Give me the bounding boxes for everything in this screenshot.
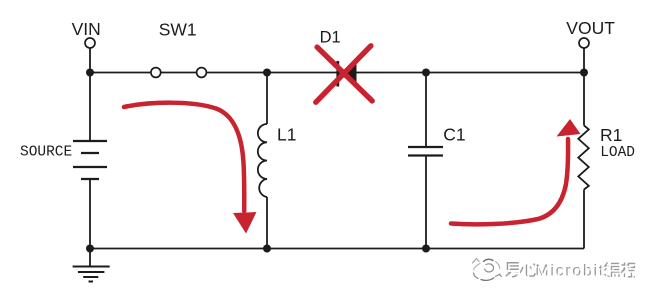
wire R1 branch upper	[583, 73, 585, 126]
node ground junction	[86, 245, 94, 253]
wire C1 branch lower	[425, 156, 427, 249]
annotation red arrow left (inrush current)	[124, 103, 257, 234]
node C1 bottom junction	[422, 245, 430, 253]
terminal VIN	[85, 38, 95, 48]
node VOUT junction	[580, 69, 588, 77]
char 心	[520, 264, 536, 277]
svg-text:C1: C1	[443, 125, 465, 145]
svg-text:SW1: SW1	[159, 19, 197, 39]
svg-text:D1: D1	[320, 29, 341, 47]
ground	[73, 267, 110, 282]
watermark text (embossed gray)	[506, 263, 637, 281]
switch SW1	[151, 68, 207, 78]
node C1 top junction	[422, 69, 430, 77]
wire L1 branch upper	[266, 73, 268, 125]
wire top rail VIN to VOUT	[90, 72, 584, 74]
wire C1 branch upper	[425, 73, 427, 148]
svg-text:Microbit: Microbit	[537, 264, 607, 281]
svg-text:L1: L1	[277, 125, 296, 145]
char 程	[621, 263, 635, 278]
terminal VOUT	[579, 38, 589, 48]
wire VIN terminal stub	[89, 48, 91, 73]
wire R1 branch lower	[583, 190, 585, 249]
svg-text:LOAD: LOAD	[600, 145, 635, 161]
wire ground stub	[89, 249, 91, 267]
wire L1 branch lower	[266, 197, 268, 249]
node L1 bottom junction	[263, 245, 271, 253]
svg-text:VOUT: VOUT	[566, 18, 615, 38]
inductor L1	[258, 124, 267, 197]
annotation red X over D1	[316, 46, 372, 102]
node L1 top junction	[263, 69, 271, 77]
battery SOURCE	[73, 141, 107, 179]
wire bottom rail	[90, 248, 584, 250]
node VIN junction	[86, 69, 94, 77]
wire left branch upper	[89, 73, 91, 142]
wire VOUT terminal stub	[583, 48, 585, 73]
char 易	[506, 263, 519, 277]
annotation red arrow right (load current)	[451, 119, 581, 224]
watermark logo	[473, 259, 502, 281]
svg-text:R1: R1	[600, 125, 622, 145]
capacitor C1	[408, 147, 443, 156]
svg-text:VIN: VIN	[72, 19, 101, 39]
char 编	[605, 263, 620, 278]
wire left branch lower	[89, 179, 91, 249]
diode D1	[338, 61, 357, 87]
resistor R1	[578, 126, 589, 190]
svg-text:SOURCE: SOURCE	[20, 144, 72, 160]
